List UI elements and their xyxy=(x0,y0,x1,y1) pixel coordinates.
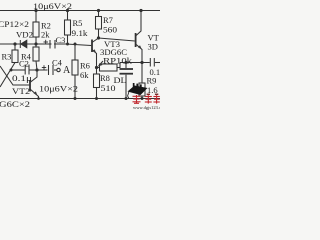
node R6 ground xyxy=(74,97,77,100)
node R3 tap xyxy=(13,42,16,45)
watermark red glyph 3 xyxy=(153,94,159,104)
node R9 ground xyxy=(141,97,144,100)
resistor R2 xyxy=(35,11,37,23)
emitter arrow VT3 xyxy=(93,49,97,53)
potentiometer RP xyxy=(97,67,100,69)
junction dots xyxy=(10,9,144,100)
capacitor C6 xyxy=(149,58,151,67)
watermark red glyph 1 xyxy=(133,95,141,104)
svg-text:CP12×2: CP12×2 xyxy=(0,19,29,29)
capacitor C2 xyxy=(24,65,26,75)
svg-text:R9: R9 xyxy=(147,76,157,86)
svg-text:C3: C3 xyxy=(56,35,66,45)
node R5 tap xyxy=(66,43,69,46)
resistor R4 xyxy=(35,44,37,47)
svg-text:10μ6V×2: 10μ6V×2 xyxy=(33,1,72,11)
capacitor C4 xyxy=(48,65,50,75)
svg-text:6k: 6k xyxy=(80,70,89,80)
resistor R9 xyxy=(141,63,143,84)
wire top supply rail xyxy=(0,10,160,12)
svg-text:VD2: VD2 xyxy=(16,30,33,40)
node VT2 collector xyxy=(35,68,38,71)
wire VT3 collector to VT4 base xyxy=(99,38,135,41)
svg-text:G6C×2: G6C×2 xyxy=(0,99,30,109)
emitter arrow VT4 xyxy=(138,45,142,49)
node RP left xyxy=(95,66,98,69)
svg-text:1.6: 1.6 xyxy=(147,85,158,95)
terminal A xyxy=(57,68,60,71)
capacitor C5 piezo DL xyxy=(125,63,127,69)
emitter arrow VT2 xyxy=(34,91,38,95)
node rail-R7 xyxy=(97,9,100,12)
svg-text:VT2: VT2 xyxy=(12,86,30,96)
svg-text:RP10k: RP10k xyxy=(103,56,133,66)
svg-text:C2: C2 xyxy=(19,59,29,69)
wiper arrow RP xyxy=(98,63,103,66)
watermark black cap xyxy=(128,83,148,98)
capacitor C3 xyxy=(52,39,55,49)
node R6 tap xyxy=(74,43,77,46)
wire left edge to VT2 base xyxy=(0,66,29,85)
resistor R6 xyxy=(74,44,76,60)
svg-text:3D: 3D xyxy=(148,42,158,52)
node rail-R5 xyxy=(66,9,69,12)
node R2-C3 xyxy=(34,42,37,45)
resistor R7 xyxy=(98,11,100,17)
wire bottom rail xyxy=(0,98,160,100)
resistor R5 xyxy=(67,11,69,21)
transistor VT4 xyxy=(135,33,137,47)
svg-text:www.dgjs123.com: www.dgjs123.com xyxy=(133,105,160,110)
node C5 ground xyxy=(125,97,128,100)
svg-text:10μ6V×2: 10μ6V×2 xyxy=(39,84,78,94)
diode VD2 xyxy=(20,40,27,48)
watermark red glyph 2 xyxy=(145,94,152,104)
resistor R8 xyxy=(96,68,98,75)
node C5 tap xyxy=(125,61,128,64)
resistor R3 xyxy=(14,44,16,50)
svg-text:A: A xyxy=(63,65,71,76)
wire input line y44 xyxy=(0,44,91,46)
plus sign C4 xyxy=(42,65,46,69)
svg-text:R3: R3 xyxy=(2,52,12,62)
svg-text:R6: R6 xyxy=(80,61,90,71)
svg-text:C4: C4 xyxy=(52,58,63,68)
node VT4 emitter R9 xyxy=(140,61,143,64)
svg-text:0.1: 0.1 xyxy=(150,67,161,77)
svg-text:510: 510 xyxy=(101,83,116,93)
node VT3 collector xyxy=(97,36,100,39)
svg-text:2k: 2k xyxy=(41,30,50,40)
node rail-R2 xyxy=(34,9,37,12)
wire C2-C4 line y70 xyxy=(11,69,25,71)
transistor VT2 xyxy=(29,80,31,92)
svg-text:9.1k: 9.1k xyxy=(72,28,89,38)
plus sign C3 xyxy=(44,40,49,44)
node R8 ground xyxy=(95,97,98,100)
node VT2 emitter ground xyxy=(37,97,40,100)
transistor VT3 xyxy=(91,40,93,53)
svg-text:R5: R5 xyxy=(73,18,83,28)
svg-text:R7: R7 xyxy=(103,15,113,25)
node C2 left xyxy=(10,69,13,72)
wire emitter line y62.5 xyxy=(120,62,150,64)
svg-text:R8: R8 xyxy=(100,73,110,83)
node rail-VT4 xyxy=(139,9,142,12)
svg-text:0.1μ: 0.1μ xyxy=(12,73,33,83)
wire R3 to lower-left edge xyxy=(0,63,15,88)
svg-text:560: 560 xyxy=(103,25,117,35)
